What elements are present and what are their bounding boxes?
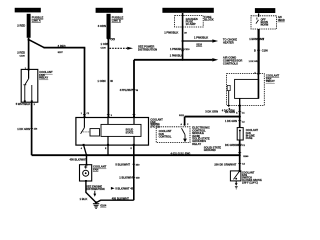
svg-text:1 DK GRN: 1 DK GRN	[17, 127, 30, 131]
svg-text:GROUND: GROUND	[204, 148, 216, 152]
svg-text:450 BLK/WHT: 450 BLK/WHT	[112, 197, 129, 201]
svg-text:10 AMP: 10 AMP	[186, 22, 196, 26]
svg-text:DK GRN/WHT: DK GRN/WHT	[225, 143, 242, 147]
svg-text:DISTRIBUTION: DISTRIBUTION	[86, 187, 105, 191]
svg-text:S157: S157	[58, 52, 64, 54]
svg-text:DK GRN: DK GRN	[225, 111, 235, 114]
svg-text:238°F (114°C): 238°F (114°C)	[242, 182, 258, 185]
svg-text:200 DK GRN/WHT: 200 DK GRN/WHT	[214, 162, 236, 166]
svg-text:4-131 (2.5L) ENG: 4-131 (2.5L) ENG	[171, 152, 191, 155]
svg-text:S210: S210	[196, 43, 202, 46]
svg-text:1 PNK/BLK: 1 PNK/BLK	[170, 47, 184, 51]
svg-text:FUSE: FUSE	[246, 137, 253, 140]
svg-text:C100: C100	[262, 49, 269, 52]
svg-text:HOT IN RUN, BULB TEST OR START: HOT IN RUN, BULB TEST OR START	[166, 10, 210, 13]
svg-text:HOT AT ALL TIMES: HOT AT ALL TIMES	[16, 9, 39, 12]
svg-text:1 PNK/BLK: 1 PNK/BLK	[194, 36, 208, 40]
svg-text:HEATER: HEATER	[223, 41, 234, 45]
svg-text:1 BLK: 1 BLK	[80, 197, 88, 201]
svg-text:5 WHT/BLK: 5 WHT/BLK	[16, 102, 31, 106]
svg-text:CONTROLS: CONTROLS	[223, 62, 238, 66]
svg-text:1 PNK/BLK: 1 PNK/BLK	[170, 54, 183, 57]
svg-text:DISTRIBUTION: DISTRIBUTION	[138, 47, 157, 51]
svg-text:HOT IN RUN: HOT IN RUN	[258, 10, 273, 13]
svg-text:BLOCK: BLOCK	[204, 18, 214, 22]
svg-text:2 RED: 2 RED	[17, 24, 25, 28]
svg-text:S249: S249	[243, 155, 249, 158]
svg-text:5 BLK/WHT 450: 5 BLK/WHT 450	[115, 186, 135, 190]
svg-text:1 ORN: 1 ORN	[101, 42, 109, 46]
svg-text:RELAY: RELAY	[39, 76, 48, 80]
svg-text:1 DK GRN: 1 DK GRN	[225, 120, 237, 123]
svg-text:3 DK GRN: 3 DK GRN	[205, 109, 218, 113]
svg-text:LINK B: LINK B	[112, 18, 121, 22]
svg-text:NORM: NORM	[261, 23, 269, 26]
svg-text:1 ORN: 1 ORN	[97, 79, 105, 83]
svg-text:B: B	[254, 49, 256, 52]
svg-text:4 PPL/WHT: 4 PPL/WHT	[120, 89, 134, 92]
svg-text:RELAY: RELAY	[192, 142, 201, 146]
svg-text:3 ORN: 3 ORN	[98, 24, 106, 28]
svg-text:S211: S211	[179, 115, 185, 117]
svg-text:C100: C100	[20, 56, 26, 58]
svg-text:HEAD: HEAD	[278, 19, 285, 22]
svg-text:(FIG 31): (FIG 31)	[150, 126, 159, 129]
svg-text:5 BLK/WHT: 5 BLK/WHT	[115, 162, 130, 166]
svg-text:1 PNK/BLK: 1 PNK/BLK	[164, 31, 178, 35]
svg-text:C210: C210	[184, 49, 190, 51]
svg-text:G104: G104	[100, 205, 107, 208]
svg-text:LINK A: LINK A	[32, 18, 41, 22]
svg-text:2 RED: 2 RED	[17, 51, 25, 55]
svg-text:3 RED: 3 RED	[58, 44, 66, 48]
svg-text:STATE: STATE	[126, 131, 134, 134]
svg-text:C100: C100	[101, 47, 107, 49]
svg-text:RELAY: RELAY	[266, 79, 275, 83]
svg-text:450 BLK/WHT: 450 BLK/WHT	[70, 157, 87, 161]
svg-text:1 DK GRN: 1 DK GRN	[249, 61, 260, 63]
svg-text:CONTROL: CONTROL	[159, 135, 172, 139]
svg-text:HOT AT ALL TIMES: HOT AT ALL TIMES	[98, 10, 121, 13]
svg-text:FAN: FAN	[93, 167, 98, 171]
svg-text:1 BLK/WHT: 1 BLK/WHT	[119, 175, 134, 179]
